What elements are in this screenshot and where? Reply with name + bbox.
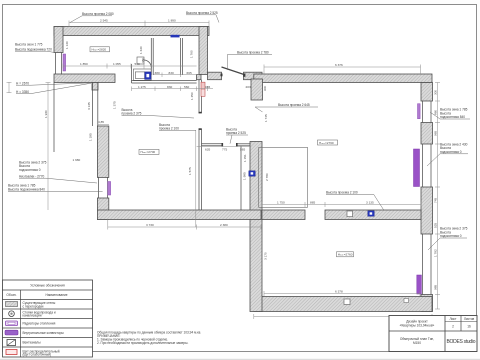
- svg-text:Условные обозначения: Условные обозначения: [30, 284, 65, 288]
- svg-text:проема 2 375: проема 2 375: [122, 112, 142, 116]
- window left lower (lines): [99, 177, 108, 198]
- Hpot box room TR: [318, 140, 338, 145]
- wall left outer mid: [97, 126, 108, 177]
- svg-text:Hпот.=2760: Hпот.=2760: [338, 253, 353, 257]
- dimension below bottom wall: [254, 314, 432, 319]
- label opening 2735: [326, 190, 384, 210]
- title block: [389, 316, 477, 352]
- left edge extension line: [53, 83, 55, 153]
- vent blue bar top wall: [171, 35, 180, 38]
- svg-text:1 640: 1 640: [139, 46, 143, 54]
- floor convector 1: [414, 149, 420, 187]
- svg-text:Высота проема 2 100: Высота проема 2 100: [326, 190, 358, 194]
- svg-text:900: 900: [263, 86, 267, 91]
- dimension small left: [7, 82, 12, 93]
- notch interior wall: [347, 211, 353, 217]
- wardrobe door jamb ticks: [222, 143, 224, 147]
- notch bottom wall 2: [404, 299, 409, 303]
- wall entry chunk right of door: [244, 72, 263, 80]
- wall right outer segment 3: [421, 187, 433, 234]
- svg-text:3 135: 3 135: [366, 201, 374, 205]
- svg-text:6 376: 6 376: [335, 63, 343, 67]
- svg-text:«Квартиры 103,94м.кв»: «Квартиры 103,94м.кв»: [400, 323, 435, 327]
- svg-text:1 745: 1 745: [264, 114, 268, 122]
- vent blue square center wall: [249, 171, 256, 176]
- svg-text:Высота проема 2 780: Высота проема 2 780: [237, 50, 269, 54]
- svg-text:H = 2670: H = 2670: [16, 81, 29, 85]
- legend row convectors: [5, 330, 64, 335]
- svg-text:Высота подоконника 720: Высота подоконника 720: [15, 47, 52, 51]
- svg-text:Листов: Листов: [464, 317, 475, 321]
- svg-text:635: 635: [205, 147, 210, 151]
- svg-text:2. При необходимости произво: 2. При необходимости производить дополни…: [97, 341, 188, 345]
- dimension top line: [69, 21, 209, 28]
- wall entry chunk left of door: [208, 72, 222, 80]
- wall left outer low: [97, 198, 108, 220]
- svg-text:подоконника 0: подоконника 0: [19, 168, 41, 172]
- svg-text:1 782: 1 782: [434, 249, 438, 257]
- label opening 2525 top: [186, 11, 219, 23]
- wall interior horizontal left part: [262, 210, 305, 220]
- dimension wardrobe: [197, 145, 250, 147]
- shaft wall lines left: [93, 83, 98, 127]
- window left upper (lines): [56, 53, 62, 75]
- Hpot box hall: [139, 149, 159, 154]
- label opening 2645: [255, 103, 318, 112]
- legend row vents: [7, 340, 41, 346]
- svg-text:1 140: 1 140: [65, 41, 69, 49]
- floor convector 2: [417, 275, 422, 294]
- wall center vertical: [250, 142, 262, 312]
- svg-text:560: 560: [184, 85, 189, 89]
- svg-text:с перегородки: с перегородки: [23, 304, 44, 308]
- svg-text:1 930: 1 930: [44, 110, 48, 118]
- kitchen zone outline: [259, 147, 308, 207]
- wall right wing top: [254, 74, 432, 83]
- wall right wing top-left stub: [251, 79, 263, 100]
- dimension bathroom upper: [153, 73, 199, 78]
- svg-text:3 135: 3 135: [87, 102, 91, 110]
- svg-text:885: 885: [310, 201, 315, 205]
- svg-text:203: 203: [246, 85, 251, 89]
- partition wardrobe horizontal: [202, 144, 251, 146]
- entrance door leaf: [222, 67, 245, 75]
- sheet bottom edge shading: [0, 359, 480, 360]
- notch bottom wall 1: [344, 299, 350, 305]
- electrical boards red: [201, 82, 205, 89]
- svg-text:проема 2 525: проема 2 525: [226, 131, 246, 135]
- wall top-left horizontal: [54, 27, 209, 36]
- dimension right wing top: [264, 65, 421, 75]
- wall right outer segment 2: [421, 123, 433, 145]
- wall left vertical top: [54, 27, 63, 53]
- svg-text:подоконника 0: подоконника 0: [440, 150, 462, 154]
- svg-text:канализации: канализации: [23, 314, 42, 318]
- wall right outer segment 4: [421, 295, 433, 312]
- label windows top-left: [15, 43, 55, 53]
- svg-text:2 380: 2 380: [220, 223, 228, 227]
- dimension right side vertical: [435, 83, 440, 310]
- radiator left lower window: [108, 182, 111, 196]
- vent blue square interior wall: [368, 211, 375, 217]
- riser blue square bathroom: [145, 72, 151, 80]
- svg-text:Вентканалы: Вентканалы: [23, 340, 42, 344]
- wall bottom right wing: [254, 297, 432, 312]
- svg-text:H = 3350: H = 3350: [16, 90, 29, 94]
- wall bathroom lower narrow: [197, 75, 202, 80]
- svg-text:1 760: 1 760: [190, 50, 194, 58]
- svg-text:Обозн.: Обозн.: [6, 293, 16, 297]
- svg-text:подоконника 840: подоконника 840: [440, 115, 465, 119]
- svg-text:4,85: 4,85: [98, 120, 104, 124]
- svg-text:830: 830: [167, 85, 172, 89]
- svg-text:проема 2 100: проема 2 100: [159, 127, 179, 131]
- radiator left upper window: [63, 54, 66, 71]
- window right 1 (lines): [423, 101, 432, 123]
- svg-text:965: 965: [205, 85, 210, 89]
- closet line vertical: [240, 146, 242, 210]
- bathroom partition a: [131, 64, 133, 83]
- notes paragraph: [97, 330, 201, 345]
- dimension room TR bottom: [262, 202, 421, 207]
- bathroom bottom wall lines: [132, 81, 197, 83]
- label window left mid: [19, 160, 97, 183]
- entrance door jambs: [221, 74, 223, 77]
- wall interior horizontal right part: [325, 210, 421, 220]
- svg-text:Наименование: Наименование: [45, 293, 67, 297]
- svg-text:1 985: 1 985: [242, 172, 246, 180]
- svg-text:1 850: 1 850: [80, 62, 88, 66]
- svg-text:Высота подоконника 840: Высота подоконника 840: [8, 188, 45, 192]
- dimension bottom-left: [108, 220, 261, 230]
- toilet tank rect: [137, 57, 144, 64]
- legend table: [3, 280, 93, 357]
- svg-text:1 375: 1 375: [112, 101, 116, 109]
- dim extension line: [195, 130, 197, 227]
- svg-text:965: 965: [434, 131, 438, 136]
- svg-text:380: 380: [141, 58, 145, 63]
- label opening 2525 wardrobe: [226, 127, 248, 143]
- svg-text:860: 860: [434, 110, 438, 115]
- svg-text:Внутрипольные конвекторы: Внутрипольные конвекторы: [23, 331, 65, 335]
- svg-text:775: 775: [222, 147, 227, 151]
- svg-text:6 378: 6 378: [335, 289, 343, 293]
- Hpot box room TL: [90, 47, 110, 52]
- wall bathroom right vertical: [199, 27, 208, 75]
- radiator right window 1: [418, 104, 421, 119]
- svg-text:745: 745: [434, 198, 438, 203]
- wall stub below entry wall: [92, 83, 98, 91]
- dimension left vertical 1930: [46, 83, 51, 211]
- label window right 2: [427, 142, 468, 166]
- svg-text:830: 830: [169, 71, 174, 75]
- Hpot box room BR: [337, 252, 354, 257]
- svg-text:300: 300: [434, 90, 438, 95]
- legend row risers: [9, 310, 56, 317]
- legend row boards: [6, 349, 60, 356]
- svg-text:1 575: 1 575: [188, 167, 192, 175]
- wall bottom-left: [97, 210, 261, 220]
- svg-text:565: 565: [240, 147, 245, 151]
- legend row walls: [6, 301, 57, 308]
- svg-text:1 185: 1 185: [88, 133, 92, 141]
- label window right 1: [430, 108, 470, 120]
- svg-text:1 750: 1 750: [277, 201, 285, 205]
- svg-text:985: 985: [434, 285, 438, 290]
- svg-text:540: 540: [135, 62, 140, 66]
- svg-text:Высота проема 2 645: Высота проема 2 645: [278, 103, 310, 107]
- label opening 2375 hall: [122, 108, 195, 118]
- svg-text:1 151: 1 151: [243, 154, 247, 162]
- svg-text:Высота проема 2 525: Высота проема 2 525: [186, 11, 218, 15]
- hall door jamb ticks: [199, 112, 202, 114]
- svg-text:1 890: 1 890: [168, 19, 176, 23]
- dimension bathroom lower: [132, 86, 214, 91]
- svg-text:Высота проема 2 080: Высота проема 2 080: [82, 12, 114, 16]
- svg-text:Лист: Лист: [450, 317, 457, 321]
- label H 2670: [16, 81, 91, 85]
- label window left low: [8, 183, 103, 191]
- svg-text:BODES studio: BODES studio: [447, 339, 476, 345]
- window right 3 (lines): [423, 234, 432, 295]
- svg-text:2 780: 2 780: [265, 173, 269, 181]
- svg-text:подоконника 0: подоконника 0: [440, 234, 462, 238]
- svg-text:1 275: 1 275: [138, 85, 146, 89]
- bathroom partition c: [181, 38, 183, 75]
- wall left lower horizontal (entry): [54, 74, 115, 83]
- svg-text:380: 380: [155, 71, 160, 75]
- vanity inner rect: [135, 72, 144, 79]
- partition hall-wardrobe vertical: [199, 80, 202, 210]
- label H 3350: [16, 83, 91, 94]
- svg-text:3 730: 3 730: [146, 223, 154, 227]
- svg-text:Высота окон 1 775: Высота окон 1 775: [15, 43, 43, 47]
- vanity outer rect: [133, 69, 151, 80]
- label opening 2100: [159, 123, 196, 131]
- svg-text:М150: М150: [413, 341, 421, 345]
- window right 2 (lines): [423, 144, 432, 187]
- dimension room TL: [63, 64, 197, 69]
- svg-text:1 250: 1 250: [190, 92, 194, 100]
- svg-text:1 055: 1 055: [113, 62, 121, 66]
- svg-text:525: 525: [434, 223, 438, 228]
- svg-text:Радиаторы отопления: Радиаторы отопления: [23, 321, 56, 325]
- svg-text:(Щит слаботочный): (Щит слаботочный): [23, 353, 52, 357]
- label window right 3: [428, 227, 468, 250]
- bathroom partition b: [151, 38, 153, 75]
- svg-text:1 680: 1 680: [73, 158, 81, 162]
- wall right outer segment 1: [421, 83, 433, 102]
- legend row radiators: [6, 321, 56, 326]
- svg-text:665: 665: [187, 71, 192, 75]
- label opening 2080: [70, 12, 114, 23]
- dimension big room 6378: [264, 291, 420, 296]
- svg-text:3 170: 3 170: [264, 252, 268, 260]
- bathroom door swing arc: [144, 60, 152, 68]
- svg-text:2: 2: [452, 325, 454, 329]
- svg-text:16: 16: [467, 325, 471, 329]
- svg-text:2 545: 2 545: [100, 19, 108, 23]
- svg-text:Низ Балки - 2770: Низ Балки - 2770: [19, 174, 44, 178]
- label opening 278x: [228, 50, 273, 70]
